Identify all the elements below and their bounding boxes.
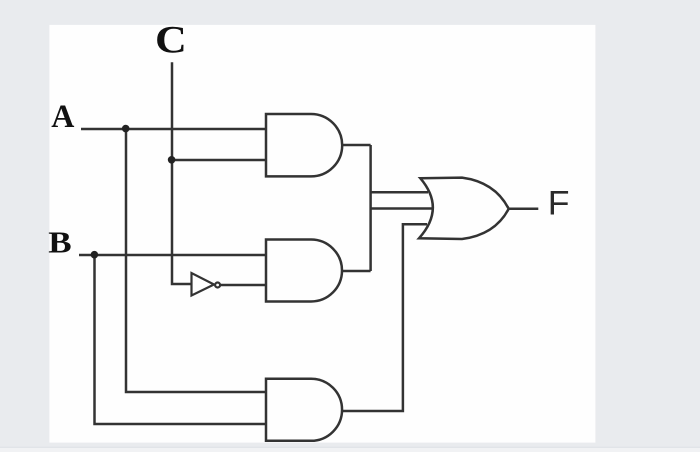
svg-text:A: A (51, 98, 74, 134)
svg-text:C: C (155, 18, 187, 61)
svg-text:F: F (548, 184, 570, 222)
svg-text:B: B (48, 226, 71, 260)
